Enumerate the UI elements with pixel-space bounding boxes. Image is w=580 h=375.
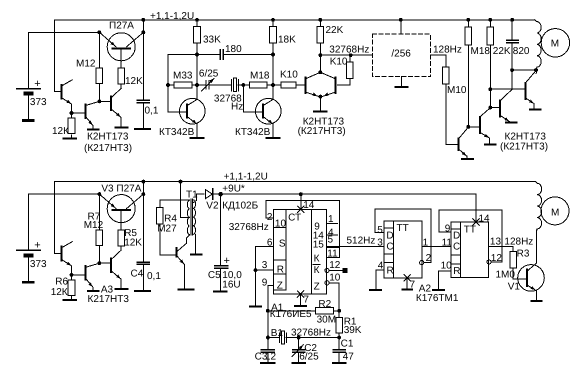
svg-text:14: 14 [479,214,491,225]
svg-text:6/25: 6/25 [299,352,319,363]
svg-text:12: 12 [265,352,277,363]
svg-text:32768Hz: 32768Hz [229,222,269,233]
svg-text:+9U*: +9U* [222,184,245,195]
svg-text:R6: R6 [55,276,68,287]
svg-text:К217НТ3: К217НТ3 [88,294,130,305]
svg-text:22K: 22K [493,46,511,57]
svg-text:13: 13 [490,236,502,247]
svg-text:/256: /256 [391,49,411,60]
svg-text:3: 3 [377,237,383,248]
svg-text:373: 373 [30,97,47,108]
svg-text:39K: 39K [344,325,362,336]
svg-text:M: M [551,207,559,218]
svg-text:47: 47 [343,352,355,363]
svg-text:5: 5 [328,235,334,246]
svg-text:(К217НТ3): (К217НТ3) [500,141,548,152]
svg-text:512Hz: 512Hz [347,236,376,247]
svg-text:10: 10 [275,219,287,230]
svg-text:Hz: Hz [231,101,243,112]
svg-text:КТ342В: КТ342В [235,127,271,138]
svg-text:+1,1-1,2U: +1,1-1,2U [150,11,194,22]
svg-text:Z: Z [314,282,320,293]
svg-text:3: 3 [262,260,268,271]
svg-text:К: К [314,265,320,276]
svg-text:10: 10 [329,273,341,284]
svg-text:М18: М18 [471,46,491,57]
svg-text:V3 П27А: V3 П27А [101,184,141,195]
svg-text:C: C [453,242,460,253]
svg-text:КТ342В: КТ342В [159,127,195,138]
svg-text:D: D [453,230,460,241]
svg-text:32768Hz: 32768Hz [291,328,331,339]
svg-text:12К: 12К [52,126,69,137]
svg-text:М12: М12 [76,59,96,70]
svg-text:М27: М27 [157,224,177,235]
svg-text:30М: 30М [317,315,336,326]
svg-text:820: 820 [513,46,530,57]
svg-text:7: 7 [303,295,309,306]
svg-text:К: К [314,254,320,265]
svg-text:V1: V1 [508,282,521,293]
svg-text:C: C [386,241,393,252]
svg-text:М10: М10 [447,85,467,96]
svg-text:33K: 33K [203,35,221,46]
svg-text:R: R [387,266,394,277]
svg-text:D: D [386,231,393,242]
svg-text:K10: K10 [330,57,348,68]
svg-text:4: 4 [378,260,384,271]
svg-text:12K: 12K [124,238,142,249]
svg-text:КД102Б: КД102Б [222,201,258,212]
svg-text:128Hz: 128Hz [433,45,462,56]
svg-text:5: 5 [377,225,383,236]
svg-text:9: 9 [445,224,451,235]
svg-text:7: 7 [410,280,416,291]
svg-text:R: R [277,265,284,276]
svg-text:9: 9 [262,277,268,288]
svg-text:11: 11 [327,248,338,259]
svg-text:15: 15 [313,240,325,251]
svg-text:128Hz: 128Hz [504,236,533,247]
svg-text:1М0: 1М0 [496,270,516,281]
svg-text:32768Hz: 32768Hz [329,45,369,56]
svg-text:+: + [224,255,230,267]
svg-text:C4: C4 [131,269,144,280]
svg-text:373: 373 [30,259,47,270]
svg-text:+: + [34,240,40,252]
svg-text:(К217НТ3): (К217НТ3) [298,126,346,137]
svg-text:K10: K10 [280,70,298,81]
svg-text:12: 12 [491,253,503,264]
svg-text:М18: М18 [250,71,270,82]
svg-text:R: R [453,266,460,277]
svg-text:+: + [34,78,40,90]
svg-text:C5: C5 [208,270,221,281]
svg-text:10: 10 [441,261,453,272]
svg-text:6/25: 6/25 [199,69,219,80]
svg-text:16U: 16U [222,279,240,290]
svg-text:Z: Z [277,281,283,292]
svg-text:ТТ: ТТ [464,225,476,236]
svg-text:С1: С1 [341,338,354,349]
svg-text:0,1: 0,1 [147,271,161,282]
svg-text:+1,1-1,2U: +1,1-1,2U [224,172,268,183]
svg-text:180: 180 [225,44,242,55]
svg-text:М12: М12 [84,220,104,231]
svg-text:R2: R2 [318,299,331,310]
svg-text:ТТ: ТТ [397,223,409,234]
svg-text:R3: R3 [517,249,530,260]
svg-text:22K: 22K [326,25,344,36]
svg-text:12K: 12K [125,76,143,87]
svg-text:М33: М33 [173,71,193,82]
svg-text:Т1: Т1 [186,190,198,201]
svg-text:0,1: 0,1 [145,106,159,117]
svg-text:СТ: СТ [288,213,301,224]
svg-text:2: 2 [426,253,432,264]
svg-text:П27А: П27А [109,21,134,32]
svg-text:12К: 12К [51,287,68,298]
svg-text:12: 12 [329,260,341,271]
svg-text:M: M [551,38,559,49]
svg-text:В1: В1 [271,328,284,339]
svg-text:V2: V2 [206,201,219,212]
svg-text:(К217НТ3): (К217НТ3) [84,143,132,154]
svg-text:18K: 18K [278,35,296,46]
svg-text:S: S [279,239,286,250]
svg-text:14: 14 [303,200,315,211]
svg-text:К2НТ173: К2НТ173 [87,132,129,143]
svg-text:К176ТМ1: К176ТМ1 [416,293,459,304]
svg-text:11: 11 [442,237,453,248]
svg-text:1: 1 [423,237,429,248]
